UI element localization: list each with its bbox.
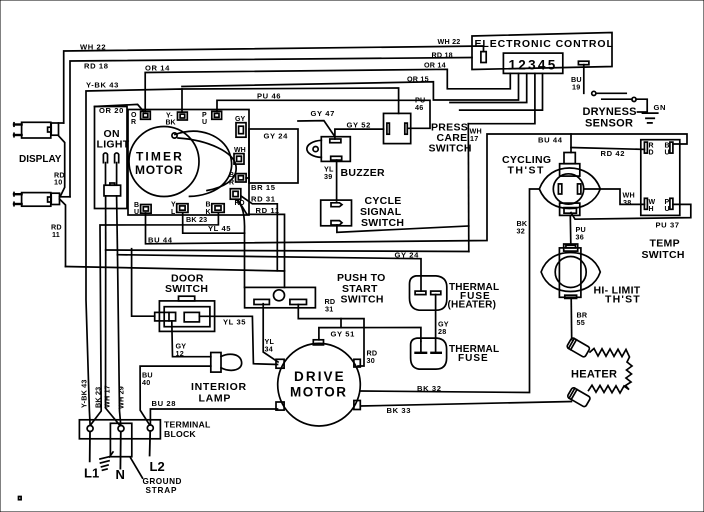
svg-text:12: 12 <box>176 349 184 358</box>
door switch <box>155 296 215 331</box>
cycle signal switch box <box>321 200 352 226</box>
motor terminal lower-right <box>354 401 360 410</box>
svg-text:TIMER: TIMER <box>136 150 184 164</box>
wire WH 38 <box>584 189 645 204</box>
timer motor box <box>128 110 249 216</box>
on light lamp leads <box>106 163 117 186</box>
svg-text:BU 28: BU 28 <box>152 399 177 408</box>
timer pin RD <box>230 189 241 200</box>
wire cycle signal switch to WH17 <box>337 225 469 232</box>
timer pin BK <box>212 204 224 213</box>
svg-text:H: H <box>649 206 654 213</box>
wire WH 17 vertical <box>467 124 470 252</box>
svg-text:31: 31 <box>325 305 333 314</box>
svg-text:U: U <box>202 119 207 126</box>
svg-text:12345: 12345 <box>509 57 558 72</box>
terminal L2 circle <box>147 425 153 431</box>
wire BK 33 <box>361 402 571 407</box>
wire BU 19 <box>583 65 585 94</box>
svg-text:OR 15: OR 15 <box>407 75 429 84</box>
svg-text:B: B <box>206 202 211 209</box>
svg-text:U: U <box>665 150 670 157</box>
wire OR 20 <box>95 104 144 111</box>
svg-text:GY 47: GY 47 <box>311 109 335 118</box>
svg-text:STRAP: STRAP <box>146 486 178 495</box>
ground strap box <box>110 423 131 456</box>
svg-text:GY: GY <box>235 116 245 123</box>
svg-text:BLOCK: BLOCK <box>164 429 196 439</box>
svg-text:RD 18: RD 18 <box>432 51 453 60</box>
connector 1 2 3 4 5 box <box>503 53 562 73</box>
timer pin YL <box>177 204 188 213</box>
svg-text:SWITCH: SWITCH <box>341 294 384 306</box>
thermal fuse (heater) body <box>410 276 447 310</box>
temp switch box <box>641 140 680 216</box>
press care switch box <box>384 113 411 143</box>
svg-text:11: 11 <box>52 230 60 239</box>
svg-text:BK 33: BK 33 <box>387 406 412 415</box>
electronic control box <box>472 33 612 70</box>
heater element zigzag <box>589 349 633 394</box>
svg-text:36: 36 <box>576 233 584 242</box>
svg-text:GN: GN <box>654 103 667 112</box>
timer pin WH <box>234 154 244 165</box>
svg-text:BK: BK <box>166 120 176 127</box>
wire BU 44 <box>146 134 688 244</box>
wire Y-BK 43 (timer Y-BK pin, L1, press care top) <box>86 88 399 425</box>
wire GY 28 <box>435 295 437 353</box>
svg-text:YL 45: YL 45 <box>208 224 231 233</box>
wire GY 24 / WH 29 (lamp lead down, line B) <box>117 196 421 426</box>
on light box <box>95 107 128 209</box>
svg-text:30: 30 <box>367 356 375 365</box>
wire N <box>119 432 121 469</box>
svg-text:W: W <box>649 199 656 206</box>
svg-text:B: B <box>229 172 234 179</box>
svg-text:HEATER: HEATER <box>571 369 617 381</box>
wire BR 55 <box>570 298 573 339</box>
svg-text:WH 22: WH 22 <box>438 37 461 46</box>
on light lamp base box <box>104 183 121 196</box>
svg-text:L: L <box>171 209 176 216</box>
drive motor circle <box>278 343 361 426</box>
svg-text:RD 11: RD 11 <box>256 206 280 215</box>
connector P2 (display lower) <box>14 193 60 207</box>
wire control pin 5 <box>460 73 543 110</box>
svg-text:OR 14: OR 14 <box>145 64 170 73</box>
svg-text:GY 24: GY 24 <box>395 251 420 260</box>
cycling thermostat <box>539 153 600 216</box>
wire RD 42 <box>571 148 644 150</box>
svg-text:WH 29: WH 29 <box>117 386 126 409</box>
stray mark <box>19 497 22 500</box>
svg-text:P: P <box>665 199 670 206</box>
svg-text:R: R <box>649 143 654 150</box>
svg-text:L2: L2 <box>150 459 165 474</box>
svg-text:PU 46: PU 46 <box>257 92 281 101</box>
connector P1 (display upper) <box>14 122 59 138</box>
svg-text:BUZZER: BUZZER <box>341 167 385 179</box>
wire control pin 4 (WH 17 upper) <box>468 73 535 123</box>
svg-text:WH 22: WH 22 <box>80 43 106 52</box>
wire RD 31 <box>241 196 277 271</box>
buzzer body <box>307 137 350 162</box>
svg-text:SWITCH: SWITCH <box>165 283 208 295</box>
wire RD 11 (P2 down to line C) <box>60 199 66 267</box>
svg-text:GROUND: GROUND <box>143 477 182 486</box>
timer cam curves <box>175 131 232 196</box>
svg-text:DRYNESS: DRYNESS <box>583 106 637 118</box>
motor terminal lower-left <box>276 402 284 410</box>
wire GY 52 <box>335 129 384 139</box>
svg-text:TH'ST: TH'ST <box>508 165 545 177</box>
svg-text:LIGHT: LIGHT <box>97 139 130 151</box>
svg-text:INTERIOR: INTERIOR <box>191 381 247 393</box>
wire YL 34 <box>263 304 278 362</box>
svg-text:R: R <box>131 119 136 126</box>
timer cam pivot <box>172 133 177 138</box>
timer motor rotor circle <box>129 127 199 197</box>
timer pin OR <box>141 111 151 119</box>
svg-text:N: N <box>116 467 125 482</box>
svg-text:32: 32 <box>517 227 525 236</box>
svg-text:MOTOR: MOTOR <box>290 385 348 400</box>
svg-text:DISPLAY: DISPLAY <box>19 154 62 165</box>
timer pin BR <box>236 174 247 182</box>
wire YL 45 <box>183 200 245 288</box>
svg-text:MOTOR: MOTOR <box>135 163 183 177</box>
svg-text:WH 17: WH 17 <box>103 385 112 408</box>
wire BR 15 <box>246 177 249 179</box>
svg-text:(HEATER): (HEATER) <box>448 300 497 311</box>
wire GY 51 (motor top to thermal fuse) <box>319 328 421 342</box>
on light lamp prongs <box>103 153 118 163</box>
wire PU 46 (timer PU pin to press care switch) <box>217 100 430 128</box>
svg-text:OR 14: OR 14 <box>424 61 446 70</box>
svg-text:L1: L1 <box>84 466 99 481</box>
svg-text:SENSOR: SENSOR <box>585 118 633 130</box>
wire line C (RD net to push-to-start) <box>66 267 285 288</box>
svg-text:BK 32: BK 32 <box>417 384 442 393</box>
svg-text:34: 34 <box>265 345 273 354</box>
terminal block box <box>79 420 160 439</box>
interior lamp <box>211 353 242 373</box>
dryness sensor switch <box>592 91 648 113</box>
wire BK 32 <box>361 189 539 393</box>
thermal fuse body <box>411 338 447 369</box>
wire GY 47 <box>298 121 335 137</box>
wire WH 17 lower (line A) <box>106 196 469 426</box>
timer pin Y-BK <box>178 112 188 120</box>
wire L1 <box>89 432 91 462</box>
svg-text:Y: Y <box>171 202 176 209</box>
svg-text:D: D <box>649 150 654 157</box>
svg-text:SWITCH: SWITCH <box>642 249 685 261</box>
svg-text:U: U <box>134 209 139 216</box>
wire BU 28 <box>150 409 277 424</box>
svg-text:WH: WH <box>234 147 246 154</box>
svg-text:SWITCH: SWITCH <box>361 217 404 229</box>
svg-text:YL 35: YL 35 <box>223 318 246 327</box>
svg-text:19: 19 <box>572 83 580 92</box>
svg-text:Y-BK 43: Y-BK 43 <box>86 81 119 90</box>
svg-text:DRIVE: DRIVE <box>294 369 346 384</box>
ground strap pointer <box>131 458 143 478</box>
timer pin GY <box>236 123 246 138</box>
svg-text:BU 44: BU 44 <box>148 236 173 245</box>
heater plug 1 <box>566 337 590 357</box>
wire BU 40 <box>140 366 211 424</box>
svg-text:38: 38 <box>623 198 631 207</box>
wire RD 18 <box>60 58 473 197</box>
terminal N circle <box>118 426 124 432</box>
svg-text:GY 51: GY 51 <box>331 330 356 339</box>
hi-limit thermostat <box>541 244 600 298</box>
svg-text:40: 40 <box>142 378 150 387</box>
ground (dryness sensor) <box>643 113 658 123</box>
svg-text:PU 37: PU 37 <box>656 221 680 230</box>
svg-text:TH'ST: TH'ST <box>605 294 641 306</box>
svg-text:RD 42: RD 42 <box>601 149 626 158</box>
wire YL 35 <box>199 316 277 364</box>
svg-text:BR 15: BR 15 <box>251 183 276 192</box>
svg-text:SWITCH: SWITCH <box>429 143 472 155</box>
wire PU 37 <box>571 204 691 219</box>
wire OR 15 (to control pin 2) <box>182 73 519 100</box>
wire WH 22 <box>59 46 484 123</box>
wire RD 10 (P1 to P2) <box>59 136 65 196</box>
push to start switch box <box>245 287 316 307</box>
motor terminal upper-left <box>276 359 284 368</box>
svg-text:ELECTRONIC CONTROL: ELECTRONIC CONTROL <box>475 38 614 50</box>
wire YL 39 <box>336 160 338 201</box>
terminal L1 circle <box>87 426 93 432</box>
motor terminal upper-right <box>354 359 360 367</box>
svg-text:46: 46 <box>415 103 423 112</box>
svg-text:LAMP: LAMP <box>199 393 232 405</box>
svg-text:B: B <box>134 202 139 209</box>
svg-text:U: U <box>665 206 670 213</box>
svg-text:RD 31: RD 31 <box>251 195 276 204</box>
svg-text:BK 23: BK 23 <box>94 387 103 408</box>
svg-text:P: P <box>202 112 207 119</box>
wire RD 11 (timer RD pin to line C) <box>238 200 284 271</box>
svg-text:R: R <box>229 180 234 187</box>
svg-text:FUSE: FUSE <box>458 353 489 364</box>
svg-text:39: 39 <box>324 172 332 181</box>
wire BK 23 <box>91 213 219 425</box>
svg-text:RD 18: RD 18 <box>84 62 109 71</box>
svg-text:GY 52: GY 52 <box>347 121 371 130</box>
svg-text:GY 24: GY 24 <box>264 132 289 141</box>
timer pin PU <box>212 111 222 119</box>
svg-text:O: O <box>131 112 137 119</box>
timer pin BU <box>141 205 152 214</box>
svg-text:BK 23: BK 23 <box>186 215 207 224</box>
svg-text:55: 55 <box>577 318 585 327</box>
GY 24 routing box <box>249 129 298 183</box>
motor terminal top <box>313 340 323 345</box>
heater plug 2 <box>567 387 591 407</box>
svg-text:B: B <box>665 143 670 150</box>
svg-text:Y-BK 43: Y-BK 43 <box>80 379 89 408</box>
wire OR 14 (timer OR pin to control pin 1) <box>145 69 510 111</box>
svg-text:10: 10 <box>54 178 62 187</box>
wire control pin 3 <box>450 73 527 102</box>
svg-text:Y-: Y- <box>166 113 173 120</box>
wire PU 36 <box>569 215 572 244</box>
svg-text:28: 28 <box>438 327 446 336</box>
svg-text:TEMP: TEMP <box>650 238 680 250</box>
wire L2 <box>149 431 152 456</box>
wire RD 30 (push-to-start to motor) <box>298 305 364 367</box>
svg-text:BU 44: BU 44 <box>538 136 563 145</box>
ground (terminal block) <box>100 452 113 470</box>
wire GY 12 <box>172 321 211 357</box>
